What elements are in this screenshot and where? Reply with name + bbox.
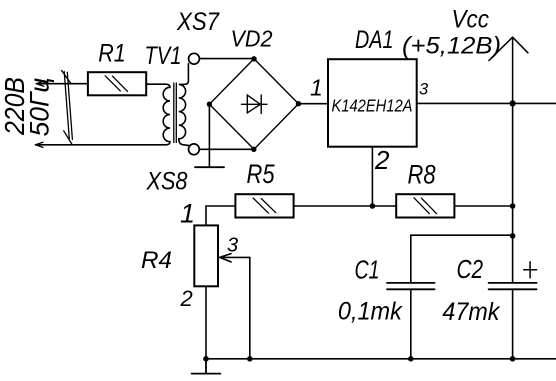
svg-text:C1: C1	[355, 255, 380, 285]
connector XS7	[189, 53, 200, 64]
diode inside VD2	[241, 95, 267, 114]
regulator DA1 box	[328, 59, 417, 147]
wire DA1 pin 2 down	[371, 147, 373, 206]
bottom ground rail	[204, 358, 556, 360]
wire top mains input	[36, 83, 88, 85]
node dot C1 bottom	[408, 356, 414, 362]
wire XS7 to bridge top	[200, 58, 254, 60]
svg-text:R4: R4	[141, 247, 172, 274]
svg-text:K142EH12A: K142EH12A	[332, 96, 413, 116]
wire R1 to transformer	[146, 83, 165, 85]
svg-text:TV1: TV1	[145, 42, 182, 70]
svg-text:3: 3	[227, 234, 238, 256]
wire DA1 pin 3 to right edge	[417, 102, 556, 104]
node dot R4 bottom	[203, 356, 209, 362]
svg-text:1: 1	[180, 199, 195, 229]
transformer TV1 primary winding	[163, 84, 170, 145]
connector XS8	[189, 144, 200, 155]
node dot R8 junction	[510, 203, 516, 209]
svg-text:DA1: DA1	[355, 26, 394, 54]
svg-text:0,1mk: 0,1mk	[338, 298, 403, 326]
svg-text:1: 1	[310, 75, 323, 101]
polarity + for C2	[524, 262, 537, 278]
resistor R8	[396, 194, 454, 217]
svg-text:2: 2	[180, 286, 193, 311]
wire bridge right to DA1 pin 1	[299, 103, 329, 105]
svg-text:C2: C2	[457, 254, 484, 284]
ground near XS8	[195, 166, 224, 168]
potentiometer R4	[194, 225, 218, 286]
transformer TV1 secondary winding	[179, 64, 190, 146]
wire bridge left to ground	[208, 104, 210, 166]
svg-text:XS7: XS7	[176, 8, 220, 36]
svg-text:47mk: 47mk	[442, 298, 500, 326]
wiper arrow R4	[220, 254, 250, 262]
wire XS8 to bridge bottom	[200, 148, 254, 150]
svg-text:3: 3	[419, 81, 429, 99]
svg-text:R1: R1	[98, 39, 126, 67]
svg-text:2: 2	[374, 145, 390, 175]
svg-text:Vcc: Vcc	[452, 5, 490, 33]
wire C1 bottom	[410, 289, 412, 359]
capacitor C1	[387, 283, 435, 289]
wire R8 to Vcc rail	[454, 205, 512, 207]
svg-text:50Гц: 50Гц	[25, 78, 55, 137]
node dot Vcc junction	[509, 100, 515, 106]
svg-text:(+5,12В): (+5,12В)	[402, 33, 501, 60]
svg-text:R5: R5	[247, 159, 276, 189]
node dot bridge left	[207, 102, 212, 107]
capacitor C2	[489, 283, 537, 289]
resistor R5	[235, 194, 293, 217]
node dot C1 top junction	[510, 233, 516, 239]
bridge rectifier VD2 diamond	[209, 59, 298, 150]
svg-text:XS8: XS8	[146, 168, 188, 196]
transformer TV1 core	[174, 83, 177, 143]
node dot pin2 junction	[370, 203, 376, 209]
wire wiper down	[249, 257, 251, 358]
node dot bridge top	[251, 56, 256, 61]
wire Vcc rail down right side	[512, 103, 514, 359]
node dot bridge right	[296, 101, 301, 106]
wire R5 to R8	[294, 205, 397, 207]
svg-text:R8: R8	[408, 160, 436, 190]
node Vcc arrow	[489, 37, 528, 103]
node dot C2 bottom	[510, 356, 516, 362]
svg-text:VD2: VD2	[231, 26, 273, 52]
node dot bridge bottom	[251, 147, 256, 152]
wire C1 top to Vcc rail	[411, 235, 513, 283]
wire bottom mains input	[36, 144, 167, 146]
wire R4 top to R5	[206, 206, 235, 225]
node dot wiper bottom	[247, 356, 253, 362]
wire R4 bottom down	[205, 286, 207, 359]
mains plug symbol	[62, 70, 73, 143]
resistor R1	[88, 72, 146, 95]
ground bottom rail	[192, 359, 221, 374]
